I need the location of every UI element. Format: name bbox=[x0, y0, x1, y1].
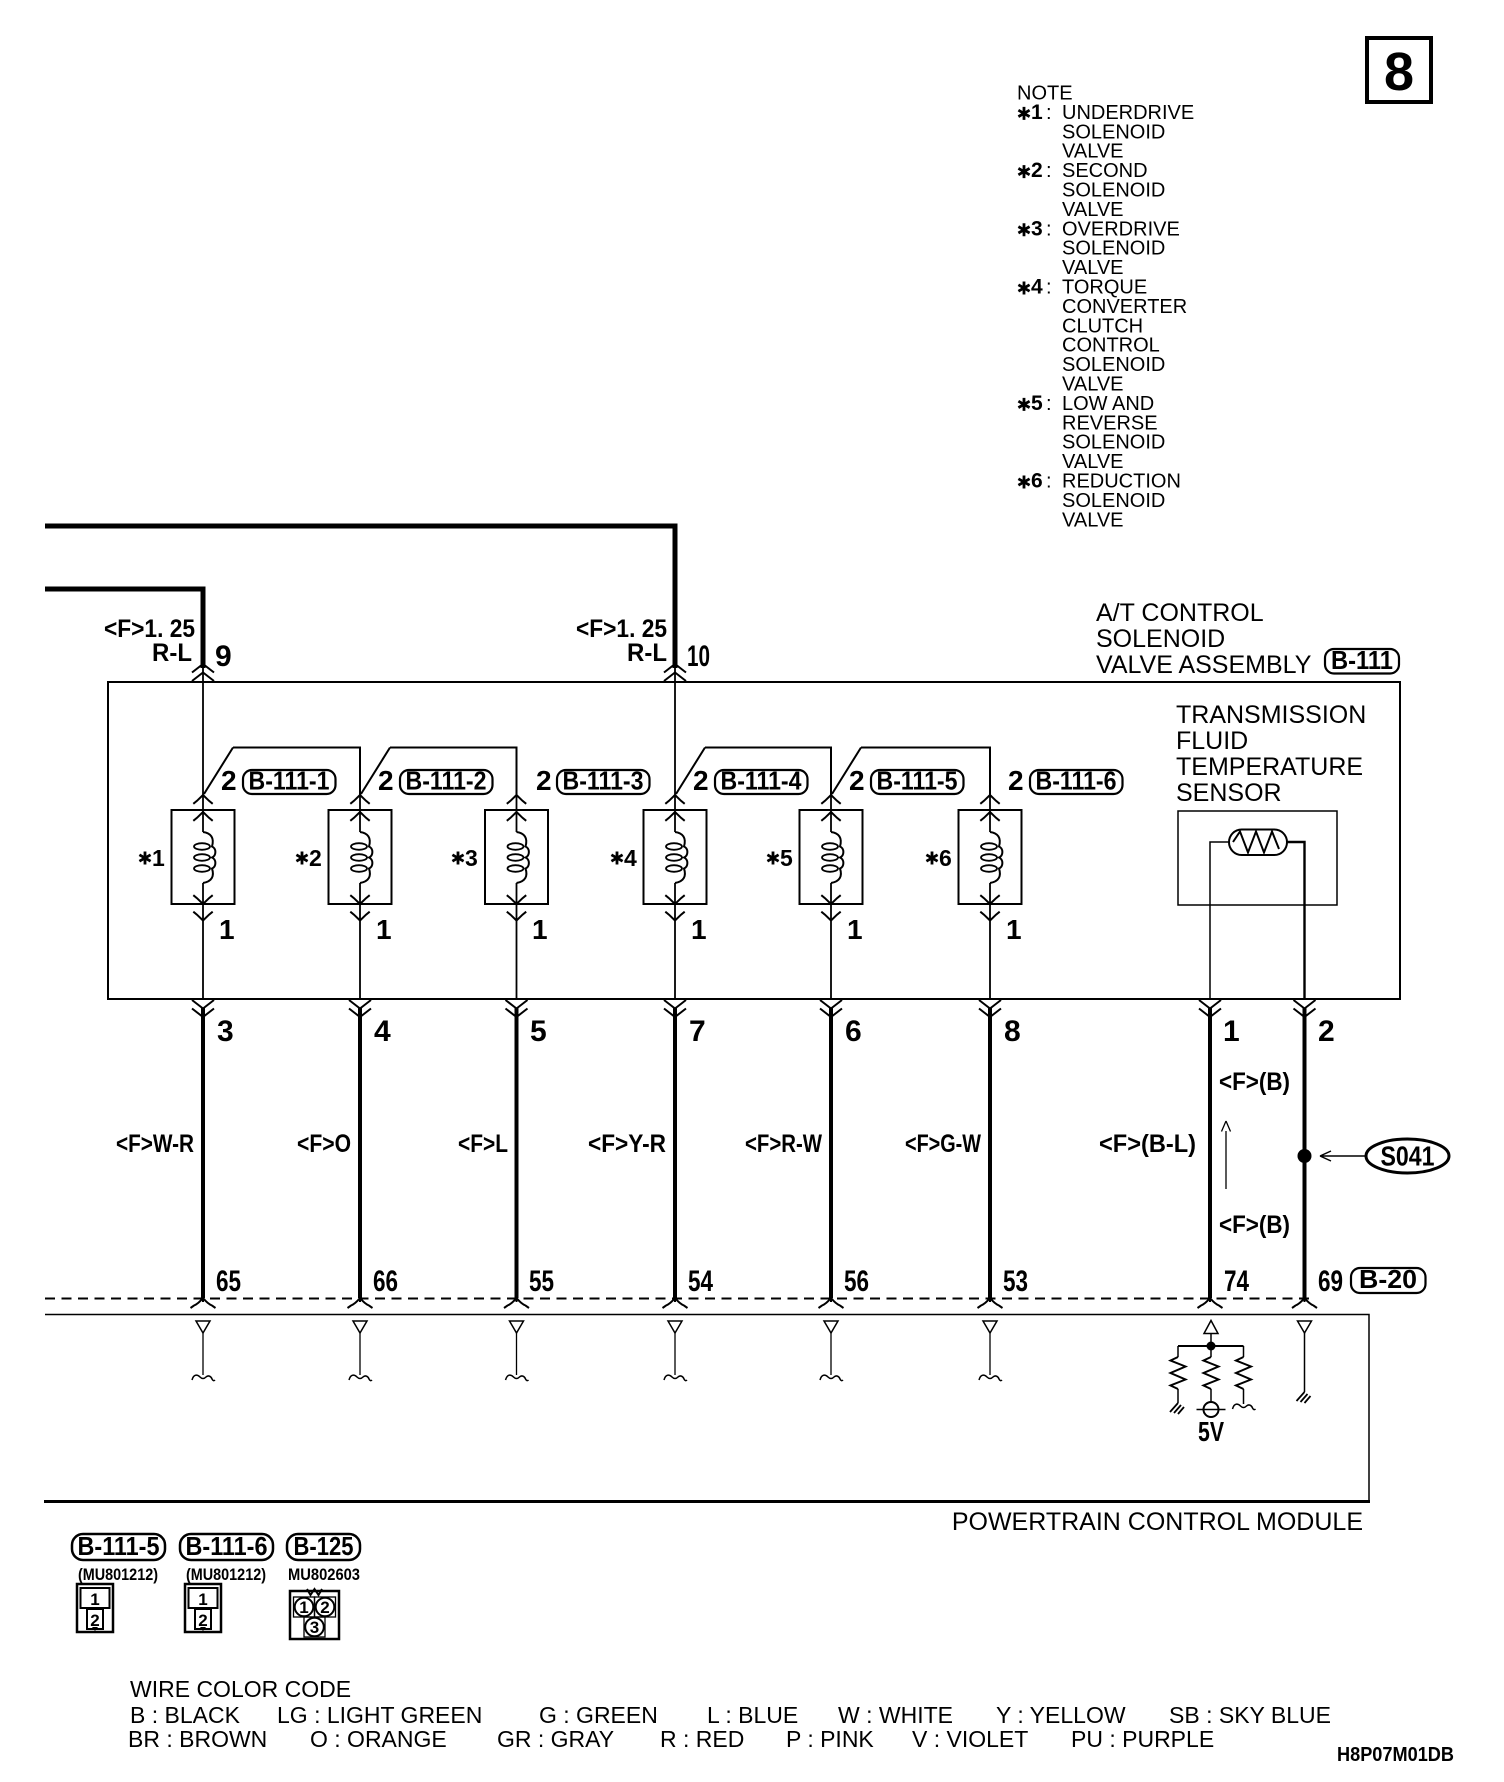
svg-text:8: 8 bbox=[1384, 42, 1414, 102]
svg-text:5: 5 bbox=[780, 845, 793, 871]
wire branch: *2 pin 2 to *3 pin 2 bbox=[361, 748, 517, 796]
svg-text:FLUID: FLUID bbox=[1176, 727, 1248, 755]
A/T control solenoid valve assembly box B-111 bbox=[108, 682, 1400, 999]
5V supply bbox=[1197, 1389, 1226, 1447]
svg-text:B-111-6: B-111-6 bbox=[186, 1531, 268, 1561]
wire (B) thick bbox=[1303, 1008, 1307, 1298]
wire: battery feed to pin 9 (thick R-L) bbox=[45, 589, 203, 668]
PCM internal: ground at pin 69 bbox=[1297, 1321, 1312, 1403]
svg-text:B-111-2: B-111-2 bbox=[406, 766, 487, 796]
wire: *3 pin 1 to PCM 55 (L) bbox=[458, 1000, 554, 1381]
svg-text:P : PINK: P : PINK bbox=[786, 1726, 874, 1752]
svg-text:TRANSMISSION: TRANSMISSION bbox=[1176, 701, 1366, 729]
svg-text:MU802603: MU802603 bbox=[288, 1565, 360, 1584]
connector B-125 cavity diagram bbox=[290, 1589, 339, 1639]
connector label B-111-6 (detail) bbox=[180, 1531, 273, 1584]
svg-text:B-111-4: B-111-4 bbox=[721, 766, 802, 796]
svg-text:8: 8 bbox=[1004, 1015, 1021, 1048]
component label *4 bbox=[611, 845, 637, 871]
PCM internal: 5V supply and pull-up network at pin 74 bbox=[1178, 1321, 1244, 1358]
svg-text:S041: S041 bbox=[1381, 1141, 1435, 1172]
connector B-111-5 cavity diagram bbox=[77, 1584, 113, 1632]
svg-text:B-20: B-20 bbox=[1359, 1264, 1417, 1294]
svg-text:VALVE ASSEMBLY: VALVE ASSEMBLY bbox=[1096, 651, 1312, 679]
svg-text:SOLENOID: SOLENOID bbox=[1096, 625, 1225, 653]
svg-text:2: 2 bbox=[309, 845, 322, 871]
svg-text:LG : LIGHT GREEN: LG : LIGHT GREEN bbox=[277, 1702, 482, 1728]
svg-text:<F>(B): <F>(B) bbox=[1219, 1068, 1290, 1096]
wire: sensor pin 2 to PCM 69 (B) bbox=[1219, 1000, 1343, 1308]
svg-text:4: 4 bbox=[1031, 276, 1043, 299]
solenoid valve *5 low and reverse (B-111-5) bbox=[800, 795, 863, 999]
wire: *6 pin 1 to PCM 53 (G-W) bbox=[905, 1000, 1028, 1381]
svg-text:74: 74 bbox=[1224, 1265, 1249, 1298]
svg-text:L : BLUE: L : BLUE bbox=[707, 1702, 798, 1728]
transmission fluid temperature sensor box bbox=[1178, 811, 1337, 905]
svg-text:V : VIOLET: V : VIOLET bbox=[912, 1726, 1028, 1752]
solenoid valve *6 reduction (B-111-6) bbox=[959, 795, 1022, 999]
svg-text:55: 55 bbox=[529, 1265, 554, 1298]
svg-text:1: 1 bbox=[90, 1590, 99, 1609]
wire: sensor pin 2 lead bbox=[1287, 842, 1305, 999]
connector label B-111-5 (detail) bbox=[72, 1531, 165, 1584]
svg-text:R-L: R-L bbox=[627, 639, 667, 667]
solenoid valve *4 torque converter clutch control (B-111-4) bbox=[644, 795, 707, 999]
connector chevrons pin 1 bbox=[1199, 1000, 1221, 1017]
svg-text:<F>W-R: <F>W-R bbox=[116, 1130, 194, 1158]
component label *6 bbox=[926, 845, 951, 871]
connector label B-111 bbox=[1325, 645, 1399, 675]
svg-text:5: 5 bbox=[530, 1015, 547, 1048]
svg-text:B-111-5: B-111-5 bbox=[877, 766, 958, 796]
svg-text:R-L: R-L bbox=[152, 639, 192, 667]
wire: *2 pin 1 to PCM 66 (O) bbox=[297, 1000, 398, 1381]
connector label B-125 (detail) bbox=[287, 1531, 360, 1584]
svg-text:GR : GRAY: GR : GRAY bbox=[497, 1726, 614, 1752]
svg-text:PU : PURPLE: PU : PURPLE bbox=[1071, 1726, 1214, 1752]
connector chevrons pin 2 bbox=[1294, 1000, 1316, 1017]
svg-text::: : bbox=[1046, 277, 1052, 299]
svg-text:<F>Y-R: <F>Y-R bbox=[588, 1130, 666, 1158]
svg-text:TEMPERATURE: TEMPERATURE bbox=[1176, 753, 1363, 781]
svg-text:53: 53 bbox=[1003, 1265, 1028, 1298]
svg-text:B-111-3: B-111-3 bbox=[563, 766, 644, 796]
component label *5 bbox=[767, 845, 793, 871]
svg-text:6: 6 bbox=[939, 845, 952, 871]
svg-text:O : ORANGE: O : ORANGE bbox=[310, 1726, 447, 1752]
svg-text:2: 2 bbox=[536, 765, 552, 796]
svg-text:B-111-5: B-111-5 bbox=[78, 1531, 160, 1561]
svg-text:VALVE: VALVE bbox=[1062, 509, 1124, 531]
svg-text:9: 9 bbox=[215, 640, 232, 673]
svg-text:R : RED: R : RED bbox=[660, 1726, 744, 1752]
wire: sensor pin 1 to PCM 74 (B-L) bbox=[1099, 1000, 1249, 1308]
svg-text:65: 65 bbox=[216, 1265, 241, 1298]
svg-text:B-111: B-111 bbox=[1331, 645, 1393, 675]
wire branch: *1 pin 2 to *2 pin 2 bbox=[204, 748, 360, 796]
svg-text:WIRE COLOR CODE: WIRE COLOR CODE bbox=[130, 1676, 351, 1702]
svg-text:6: 6 bbox=[1031, 470, 1043, 493]
wire: R3 to internal circuit bbox=[1233, 1389, 1256, 1410]
svg-text::: : bbox=[1046, 393, 1052, 415]
svg-text::: : bbox=[1046, 160, 1052, 182]
svg-text:5V: 5V bbox=[1198, 1416, 1224, 1447]
svg-text:3: 3 bbox=[465, 845, 478, 871]
wire: *1 pin 1 to PCM 65 (W-R) bbox=[116, 1000, 241, 1381]
svg-text:<F>L: <F>L bbox=[458, 1130, 508, 1158]
svg-text:4: 4 bbox=[374, 1015, 391, 1048]
svg-text:W : WHITE: W : WHITE bbox=[838, 1702, 953, 1728]
wire label F 1.25 R-L (pin 10) bbox=[576, 615, 667, 667]
connector label B-111-3 bbox=[557, 766, 650, 796]
connector B-111-6 cavity diagram bbox=[185, 1584, 221, 1632]
svg-text:54: 54 bbox=[688, 1265, 713, 1298]
component label *2 bbox=[296, 845, 321, 871]
svg-text:2: 2 bbox=[849, 765, 865, 796]
svg-text:2: 2 bbox=[1318, 1015, 1335, 1048]
svg-text:6: 6 bbox=[845, 1015, 862, 1048]
svg-text:2: 2 bbox=[221, 765, 237, 796]
svg-text:1: 1 bbox=[376, 914, 392, 945]
PCM connector dashed line B-20 bbox=[45, 1298, 1312, 1300]
svg-text:POWERTRAIN CONTROL MODULE: POWERTRAIN CONTROL MODULE bbox=[952, 1508, 1363, 1536]
svg-text:B-111-6: B-111-6 bbox=[1036, 766, 1117, 796]
connector label B-111-1 bbox=[243, 766, 336, 796]
component label *1 bbox=[139, 845, 165, 871]
ground (R1) bbox=[1170, 1389, 1184, 1414]
svg-text:56: 56 bbox=[844, 1265, 869, 1298]
connector label B-20 bbox=[1351, 1264, 1426, 1294]
svg-text:1: 1 bbox=[198, 1590, 207, 1609]
svg-text:BR : BROWN: BR : BROWN bbox=[128, 1726, 267, 1752]
resistor R3 (internal) bbox=[1236, 1357, 1251, 1389]
svg-text:1: 1 bbox=[219, 914, 235, 945]
svg-text:B : BLACK: B : BLACK bbox=[130, 1702, 241, 1728]
svg-text:2: 2 bbox=[693, 765, 709, 796]
svg-text:3: 3 bbox=[310, 1618, 319, 1637]
svg-text:2: 2 bbox=[320, 1598, 329, 1617]
connector label B-111-4 bbox=[715, 766, 808, 796]
svg-text:2: 2 bbox=[1008, 765, 1024, 796]
svg-text:1: 1 bbox=[152, 845, 165, 871]
svg-text:SENSOR: SENSOR bbox=[1176, 779, 1282, 807]
note legend text bbox=[1017, 83, 1194, 532]
svg-text:<F>(B-L): <F>(B-L) bbox=[1099, 1130, 1196, 1158]
svg-text:1: 1 bbox=[1223, 1015, 1240, 1048]
svg-text:3: 3 bbox=[217, 1015, 234, 1048]
svg-text:10: 10 bbox=[687, 640, 710, 673]
svg-text:1: 1 bbox=[1031, 101, 1043, 124]
wire: pin 9 into solenoid *1 bbox=[202, 668, 204, 795]
pin 10 bbox=[664, 640, 710, 681]
svg-text:1: 1 bbox=[847, 914, 863, 945]
svg-text:<F>O: <F>O bbox=[297, 1130, 351, 1158]
component label *3 bbox=[452, 845, 477, 871]
wire branch: *4 pin 2 to *5 pin 2 bbox=[676, 748, 831, 796]
svg-text:69: 69 bbox=[1318, 1265, 1343, 1298]
connector label B-111-6 bbox=[1030, 766, 1123, 796]
splice S041 bbox=[1298, 1139, 1450, 1173]
svg-text:B-125: B-125 bbox=[294, 1531, 354, 1561]
svg-text:A/T CONTROL: A/T CONTROL bbox=[1096, 599, 1264, 627]
solenoid valve *3 overdrive (B-111-3) bbox=[485, 795, 548, 999]
svg-text:5: 5 bbox=[1031, 392, 1043, 415]
svg-text::: : bbox=[1046, 218, 1052, 240]
svg-text::: : bbox=[1046, 471, 1052, 493]
svg-text:4: 4 bbox=[624, 845, 637, 871]
svg-text:SB : SKY BLUE: SB : SKY BLUE bbox=[1169, 1702, 1331, 1728]
solenoid valve *2 second (B-111-2) bbox=[329, 795, 392, 999]
svg-text:<F>(B): <F>(B) bbox=[1219, 1211, 1290, 1239]
pin 9 bbox=[192, 640, 232, 681]
wire: *4 pin 1 to PCM 54 (Y-R) bbox=[588, 1000, 713, 1381]
wire label F 1.25 R-L (pin 9) bbox=[104, 615, 195, 667]
svg-text:1: 1 bbox=[532, 914, 548, 945]
A/T control solenoid valve assembly title bbox=[1096, 599, 1312, 679]
svg-text:2: 2 bbox=[1031, 159, 1043, 182]
wire: *5 pin 1 to PCM 56 (R-W) bbox=[745, 1000, 869, 1381]
wire: battery feed to pin 10 (thick R-L) bbox=[45, 526, 675, 668]
wire (B-L) thick bbox=[1208, 1008, 1212, 1298]
svg-text:1: 1 bbox=[299, 1598, 308, 1617]
page number box 8 bbox=[1367, 38, 1431, 102]
resistor R2 (to 5V) bbox=[1204, 1357, 1219, 1389]
svg-text:<F>G-W: <F>G-W bbox=[905, 1130, 981, 1158]
solenoid valve *1 underdrive (B-111-1) bbox=[172, 795, 235, 999]
svg-text:Y : YELLOW: Y : YELLOW bbox=[996, 1702, 1126, 1728]
svg-text:3: 3 bbox=[1031, 217, 1043, 240]
svg-text:7: 7 bbox=[689, 1015, 706, 1048]
svg-text:2: 2 bbox=[378, 765, 394, 796]
svg-text:(MU801212): (MU801212) bbox=[78, 1565, 158, 1584]
wire color code legend bbox=[128, 1676, 1331, 1752]
svg-text:1: 1 bbox=[1006, 914, 1022, 945]
svg-text:1: 1 bbox=[691, 914, 707, 945]
svg-text:G : GREEN: G : GREEN bbox=[539, 1702, 658, 1728]
connector label B-111-2 bbox=[400, 766, 493, 796]
transmission fluid temperature sensor title bbox=[1176, 701, 1366, 807]
svg-text:B-111-1: B-111-1 bbox=[249, 766, 330, 796]
wire: pin 10 into solenoid *4 bbox=[674, 668, 676, 795]
connector label B-111-5 bbox=[871, 766, 964, 796]
wire branch: *5 pin 2 to *6 pin 2 bbox=[832, 748, 990, 796]
svg-text:H8P07M01DB: H8P07M01DB bbox=[1337, 1744, 1454, 1766]
flow direction arrow bbox=[1222, 1121, 1231, 1189]
svg-text:66: 66 bbox=[373, 1265, 398, 1298]
svg-text::: : bbox=[1046, 102, 1052, 124]
svg-text:<F>R-W: <F>R-W bbox=[745, 1130, 822, 1158]
wire: sensor pin 1 lead bbox=[1210, 842, 1229, 999]
resistor R1 (to ground) bbox=[1171, 1357, 1186, 1389]
thermistor element bbox=[1229, 830, 1287, 856]
powertrain control module box bbox=[45, 1315, 1369, 1503]
svg-text:(MU801212): (MU801212) bbox=[186, 1565, 266, 1584]
